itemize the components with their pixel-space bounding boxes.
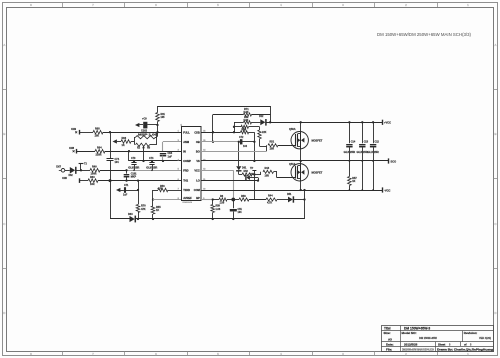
resistor R69 5.6K: [244, 121, 252, 124]
resistor R51 10R gate1: [268, 144, 278, 147]
op-amp U1 IRS2092S: [182, 127, 202, 201]
node junction x126.5 y170: [125, 169, 127, 171]
transistor Q51 MOSFET low side: [291, 164, 308, 181]
resistor R61: [157, 106, 159, 113]
wire +VCC rail y122.3: [234, 122, 244, 124]
svg-text:COMP: COMP: [183, 159, 191, 163]
svg-text:C71: C71: [124, 184, 129, 187]
svg-text:R49: R49: [92, 166, 97, 169]
resistor R44 4.7K: [266, 198, 277, 201]
transistor Q50 MOSFET high side: [291, 132, 308, 149]
node junction x157.5 y132: [156, 131, 158, 133]
svg-text:Drawn By: Charlie.QiuJinPingHu: Drawn By: Charlie.QiuJinPingHuang: [437, 348, 493, 352]
svg-text:BO: BO: [196, 149, 200, 153]
diode D51: [288, 197, 293, 203]
svg-text:105: 105: [161, 116, 166, 119]
wire row y161 to pin COMP: [128, 151, 130, 161]
svg-text:10K: 10K: [95, 135, 100, 138]
resistor R49 100R: [90, 169, 100, 173]
svg-text:MKP: MKP: [131, 176, 137, 179]
svg-text:C74: C74: [149, 157, 154, 160]
wire source Q51 to row 190: [300, 181, 302, 190]
capacitor C12 GLK25R: [373, 122, 375, 143]
resistor R56 4.7K: [158, 188, 168, 192]
svg-text:BP: BP: [196, 196, 200, 200]
svg-text:CN7: CN7: [56, 166, 62, 169]
capacitor C162: [135, 123, 139, 127]
border zone ticks right: [494, 89, 498, 91]
node junction x299.7 y161: [300, 160, 302, 162]
wire LO stub up: [258, 178, 260, 181]
resistor R68 10K: [93, 130, 103, 134]
capacitor C74 104: [107, 158, 114, 160]
svg-text:Size:: Size:: [384, 331, 391, 335]
svg-text:VS: VS: [196, 159, 200, 163]
capacitor C63 1uF: [160, 153, 166, 155]
svg-text:1uF: 1uF: [123, 194, 128, 197]
svg-text:AVREF: AVREF: [183, 196, 192, 200]
wire corner x270.5: [270, 106, 272, 122]
wire row y126.8: [234, 126, 241, 128]
resistor R64 220R: [95, 149, 105, 153]
svg-text:DM150W+65W MAIN REV4.SCH: DM150W+65W MAIN REV4.SCH: [402, 348, 434, 351]
resistor R55 1K: [151, 206, 155, 214]
node junction wiper y161: [142, 160, 144, 162]
wire vertical bus x110: [110, 132, 112, 158]
wire input row y180 TH1: [79, 178, 81, 183]
wire vertical x238.8 to diode: [238, 142, 240, 167]
wire vertical x153: [152, 190, 154, 206]
svg-text:4.7K: 4.7K: [158, 187, 163, 190]
node junction x213 y132: [212, 131, 214, 133]
wire gray FRD row to IC: [127, 170, 182, 172]
resistor R54 22K vertical: [258, 130, 261, 139]
svg-text:Revision:: Revision:: [464, 331, 478, 335]
svg-text:R68: R68: [95, 128, 100, 131]
node junction x299.7 y190: [300, 189, 302, 191]
diode D62: [70, 167, 75, 173]
svg-text:1.06: 1.06: [220, 202, 225, 205]
terminal -VCC: [382, 187, 384, 192]
terminal +VCC: [382, 120, 384, 125]
node junctions column C13: [361, 121, 363, 123]
svg-text:LO: LO: [196, 179, 200, 183]
svg-text:10R: 10R: [90, 183, 95, 186]
wire bottom rail y219: [110, 218, 130, 220]
diode D52 zener small: [247, 175, 250, 180]
wire gray AVREF row: [153, 199, 182, 201]
svg-text:of: of: [464, 342, 467, 346]
wire vertical x254.4 lower: [254, 175, 256, 200]
node junction x138 y180: [137, 179, 139, 181]
svg-text:IN: IN: [183, 149, 186, 153]
wire vertical x213 top: [212, 115, 214, 142]
svg-text:C12: C12: [375, 141, 380, 144]
svg-text:2012/5/28: 2012/5/28: [404, 342, 418, 346]
node junction x110 y132: [109, 131, 111, 133]
capacitor C73 GLK25R: [133, 160, 135, 162]
svg-text:OB: OB: [196, 140, 200, 144]
svg-text:4.7K: 4.7K: [267, 202, 272, 205]
terminal CN7 circle: [61, 169, 65, 173]
svg-text:1K: 1K: [156, 209, 159, 212]
svg-text:R64: R64: [97, 147, 102, 150]
svg-text:D51: D51: [287, 193, 292, 196]
svg-text:VER 4(2S): VER 4(2S): [479, 337, 491, 340]
svg-text:SCO: SCO: [391, 159, 397, 163]
svg-text:1.06: 1.06: [216, 208, 221, 211]
resistor R43 10R gate2: [263, 170, 274, 173]
node junction x213 y141.8: [212, 141, 214, 143]
node junction x157.5 y125: [156, 124, 158, 126]
svg-text:DM 150W+65W/DM 250W+65W MAIN: DM 150W+65W/DM 250W+65W MAIN SCH(3/3): [377, 32, 472, 37]
svg-text:FULL: FULL: [183, 130, 190, 134]
resistor R58 1.06: [239, 198, 249, 201]
svg-text:CSB: CSB: [194, 130, 200, 134]
svg-text:104: 104: [238, 211, 243, 214]
wire top feedback row y106: [158, 106, 271, 108]
border zone ticks top: [62, 3, 64, 7]
resistor R59 vertical x212.7: [212, 200, 214, 205]
svg-text:TH1: TH1: [183, 179, 188, 183]
resistor R53 on CSB row: [241, 131, 249, 134]
wire row y114.5: [213, 114, 244, 116]
svg-text:C73: C73: [131, 157, 136, 160]
wire source Q50 to mid rail: [300, 149, 302, 161]
wire row y190 T1RD: [153, 190, 158, 192]
diode D63: [130, 216, 135, 222]
svg-text:ANM: ANM: [183, 140, 189, 144]
svg-text:GLK25R: GLK25R: [146, 167, 157, 170]
svg-text:FRD: FRD: [183, 168, 188, 172]
node junction x238.8 y141.8: [238, 141, 240, 143]
wire LO row y180.6: [201, 180, 258, 182]
wire gate2 path: [254, 174, 261, 176]
svg-text:C14: C14: [351, 141, 356, 144]
svg-text:220R: 220R: [96, 154, 102, 157]
svg-text:VCC: VCC: [194, 168, 200, 172]
svg-text:1K: 1K: [352, 180, 355, 183]
svg-text:T1RD: T1RD: [183, 188, 190, 192]
wire gate1 feed: [260, 146, 267, 148]
wire CSB row y132 right: [201, 132, 241, 134]
capacitor C71 with connector arrow: [116, 188, 120, 192]
svg-text:5.6K: 5.6K: [244, 111, 249, 114]
node junction x153 y199.5: [152, 198, 154, 200]
wire BP row y199.5: [201, 199, 213, 201]
svg-text:MSP 1.06: MSP 1.06: [138, 133, 158, 136]
node junction x126.5 y180: [125, 179, 127, 181]
test point TP3: [252, 170, 256, 172]
node junction x234 y126.8: [233, 126, 235, 128]
svg-text:1K: 1K: [243, 129, 246, 132]
resistor R63 10R: [88, 179, 98, 183]
svg-text:Q50A: Q50A: [289, 128, 296, 131]
title block table: [382, 326, 494, 352]
svg-text:GLK25R: GLK25R: [128, 167, 139, 170]
svg-text:MOSFET: MOSFET: [312, 171, 323, 175]
capacitor C13 GLK25R: [362, 122, 364, 143]
svg-text:COM: COM: [194, 188, 200, 192]
svg-text:Q51A: Q51A: [289, 163, 296, 166]
node junction x129 y151: [128, 150, 130, 152]
wire gray BO row: [201, 151, 267, 153]
node junctions on bottom rail: [137, 218, 139, 220]
resistor R70 47K: [136, 205, 140, 213]
svg-text:R69: R69: [244, 116, 249, 119]
svg-text:GLK25R: GLK25R: [344, 151, 356, 154]
svg-text:D62: D62: [69, 175, 74, 177]
svg-text:Date:: Date:: [386, 342, 394, 346]
svg-text:C72: C72: [239, 136, 244, 139]
svg-text:R63: R63: [90, 176, 95, 179]
svg-text:C13: C13: [364, 141, 369, 144]
wire row y170 FRD: [65, 170, 70, 172]
node junction gray y161: [162, 160, 164, 162]
svg-text:IRS2092S: IRS2092S: [183, 202, 193, 204]
svg-text:A3: A3: [388, 337, 392, 341]
svg-text:Model NO:: Model NO:: [402, 331, 417, 335]
wire VS mid rail y161: [201, 160, 388, 162]
node junction x270 y122.3: [269, 121, 271, 123]
node junctions column C12: [372, 121, 374, 123]
svg-text:1K: 1K: [122, 144, 125, 147]
terminal SCO: [388, 158, 390, 163]
svg-text:CN8: CN8: [69, 147, 75, 150]
node junction x254.4 y161: [253, 160, 255, 162]
svg-text:Titel: Titel: [384, 327, 391, 331]
node junction x258 y180.6: [257, 179, 259, 181]
svg-text:CN9: CN9: [71, 128, 77, 131]
svg-text:GLK25R: GLK25R: [367, 151, 379, 154]
wire vertical x304.5: [304, 190, 306, 219]
capacitor C51 104 x233.3: [233, 200, 235, 209]
node junction x254.4 y141.8: [253, 141, 255, 143]
svg-text:File:: File:: [386, 348, 392, 352]
wire gray VCC row: [201, 170, 234, 172]
diode D61 down: [236, 166, 241, 170]
wire COM row y190: [201, 190, 382, 192]
node junction GLK bottoms: [133, 170, 135, 172]
node junction x254.4 y174.5: [253, 173, 255, 175]
resistor R67 1K: [241, 125, 249, 128]
wire vertical x138: [138, 181, 140, 205]
wire input row y151 to pin IN: [76, 149, 78, 154]
svg-text:+C9: +C9: [142, 118, 147, 121]
svg-text:-VCC: -VCC: [384, 188, 390, 192]
svg-text:104: 104: [243, 145, 248, 148]
capacitor C74b GLK25R: [151, 160, 153, 162]
wire vertical x234: [234, 122, 236, 132]
svg-text:D63: D63: [128, 213, 133, 216]
wire vertical A x254.4: [254, 132, 256, 161]
node junction x304.5 y190: [303, 189, 305, 191]
svg-text:D61: D61: [242, 166, 247, 169]
node junctions column C14: [348, 121, 350, 123]
svg-text:CN6: CN6: [62, 177, 67, 180]
svg-text:104: 104: [115, 161, 120, 164]
svg-text:MOSFET: MOSFET: [312, 139, 323, 143]
svg-text:DM 150W+65W: DM 150W+65W: [419, 337, 437, 340]
svg-text:R43: R43: [265, 167, 270, 170]
capacitor C14 GLK25R: [349, 122, 351, 143]
wire drain Q50 to +VCC rail: [300, 122, 302, 131]
svg-text:TP: TP: [250, 167, 254, 170]
svg-text:R51: R51: [270, 140, 275, 143]
node junction x304.5 y199.5: [303, 198, 305, 200]
test point T2: [80, 169, 82, 171]
node junction big x233.3 y199.5: [231, 198, 235, 202]
trimmer network MSP 1.06: [113, 139, 117, 143]
resistor R52: [242, 173, 252, 176]
svg-text:D12: D12: [259, 115, 264, 118]
wire gate1 pull network vertical x259.5: [259, 127, 261, 130]
svg-text:10R: 10R: [265, 174, 270, 177]
wire gray OB row: [201, 141, 239, 143]
svg-text:R58: R58: [241, 195, 246, 198]
svg-text:R66: R66: [122, 137, 127, 140]
svg-text:10R: 10R: [270, 148, 275, 151]
resistor R71 5.6K: [244, 113, 252, 116]
svg-text:47K: 47K: [141, 208, 146, 211]
wire gray ANM pin row: [163, 141, 182, 143]
svg-text:+VCC: +VCC: [384, 121, 391, 125]
node junction big x110 y180: [109, 179, 112, 182]
resistor R57 column x349.4: [349, 161, 351, 177]
svg-text:R52: R52: [244, 170, 249, 173]
trimmer wiper arrow: [143, 148, 145, 161]
border zone ticks left: [2, 89, 6, 91]
svg-text:Sheet: Sheet: [438, 342, 445, 346]
svg-text:5.6K: 5.6K: [244, 120, 249, 122]
capacitor C72 104: [240, 139, 242, 144]
resistor R62 1.06: [219, 198, 227, 201]
svg-text:R44: R44: [268, 195, 273, 198]
svg-text:DM 150W+65W-3: DM 150W+65W-3: [404, 327, 430, 331]
wire input row y132 to pin FULL: [79, 130, 81, 135]
border zone ticks bottom: [62, 352, 64, 356]
diode D12: [260, 119, 265, 125]
svg-text:22K: 22K: [262, 131, 267, 134]
capacitor C101 MKP: [126, 170, 128, 173]
node junction x234 y132: [233, 131, 235, 133]
svg-text:1uF: 1uF: [168, 155, 173, 158]
wire drain Q51 to mid rail: [300, 161, 302, 164]
